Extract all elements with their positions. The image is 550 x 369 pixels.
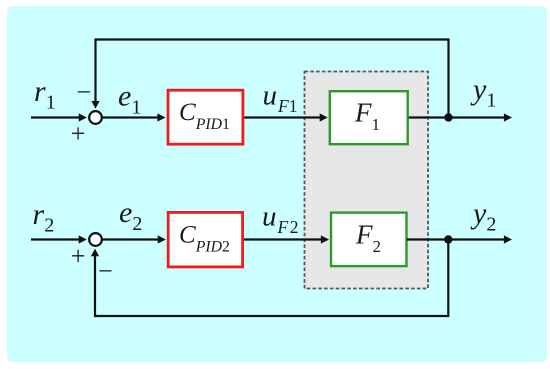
svg-text:−: − [98, 256, 113, 285]
svg-text:−: − [77, 78, 92, 107]
svg-text:+: + [71, 241, 86, 270]
svg-text:+: + [71, 119, 86, 148]
